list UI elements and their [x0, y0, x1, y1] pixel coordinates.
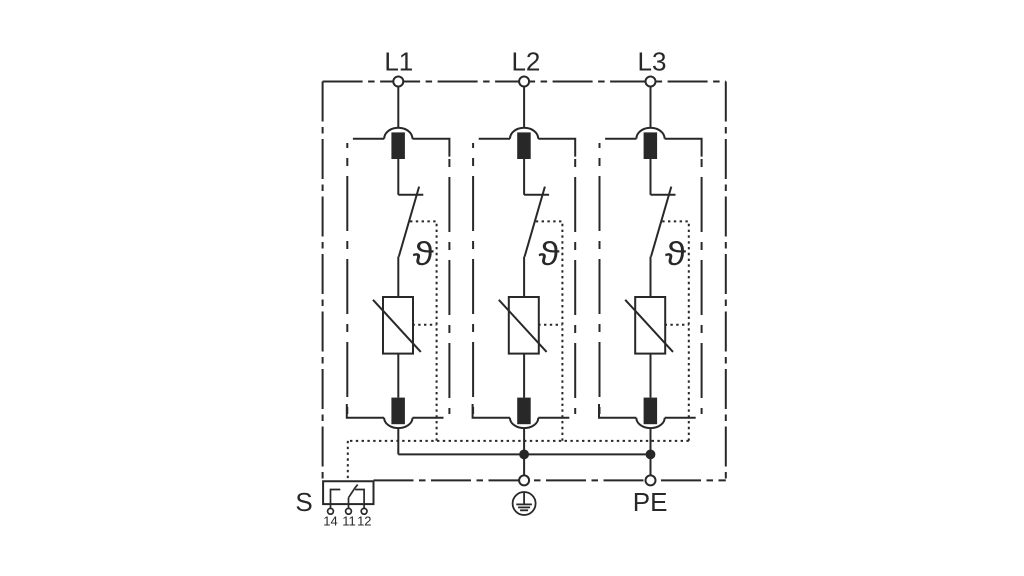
wire	[523, 257, 525, 297]
wire	[523, 159, 525, 195]
terminal L1	[393, 77, 403, 128]
wire	[523, 354, 525, 398]
thermal monitor dotted box 3	[662, 221, 689, 441]
terminal pin 12	[361, 504, 367, 514]
protective module 2 dash-dot box	[473, 139, 576, 418]
wire	[650, 159, 652, 195]
plug-in contact bottom 2 (arc)	[510, 418, 538, 428]
changeover contact: terminal 14 path	[331, 490, 341, 505]
svg-text:11: 11	[342, 514, 356, 529]
svg-text:12: 12	[357, 514, 371, 529]
thermal disconnect switch 2	[524, 187, 549, 257]
remote signalling contact box S	[323, 481, 373, 504]
thermal disconnect switch 1	[398, 187, 423, 257]
disconnect terminal top 1 (black block)	[391, 132, 405, 159]
varistor 3	[625, 297, 673, 354]
varistor 2	[499, 297, 547, 354]
junction node at L3 branch	[646, 450, 656, 460]
terminal pin 11	[346, 504, 352, 514]
terminal L2	[519, 77, 529, 128]
wire	[650, 354, 652, 398]
earth terminal circle	[519, 475, 529, 485]
thermal disconnect switch 3	[651, 187, 676, 257]
terminal L3	[646, 77, 656, 128]
wire	[650, 428, 652, 454]
protective module 1 dash-dot box	[347, 139, 450, 418]
thermal monitor dotted box 1	[410, 221, 437, 441]
plug-in contact bottom 3 (arc)	[636, 418, 664, 428]
changeover contact: terminal 12 path	[355, 490, 364, 505]
plug-in contact top 2 (arc)	[510, 128, 538, 139]
protective earth symbol	[513, 492, 536, 515]
disconnect terminal top 2 (black block)	[517, 132, 531, 159]
plug-in contact top 3 (arc)	[636, 128, 664, 139]
thermal monitor dotted box 2	[536, 221, 563, 441]
wire	[397, 159, 399, 195]
outer enclosure dash-dot border	[323, 82, 726, 481]
svg-text:S: S	[295, 487, 312, 517]
varistor 1	[373, 297, 421, 354]
disconnect terminal top 3 (black block)	[644, 132, 658, 159]
svg-text:ϑ: ϑ	[413, 234, 435, 272]
disconnect terminal bottom 1 (black block)	[391, 398, 405, 425]
terminal pin 14	[328, 504, 334, 514]
junction node at L2 branch	[519, 450, 529, 460]
wire	[397, 257, 399, 297]
svg-text:L3: L3	[638, 47, 667, 77]
disconnect terminal bottom 2 (black block)	[517, 398, 531, 425]
svg-text:14: 14	[323, 514, 337, 529]
plug-in contact bottom 1 (arc)	[384, 418, 412, 428]
wire	[650, 257, 652, 297]
svg-text:PE: PE	[633, 487, 668, 517]
PE bus wire	[398, 453, 650, 455]
protective module 3 dash-dot box	[599, 139, 702, 418]
disconnect terminal bottom 3 (black block)	[644, 398, 658, 425]
PE terminal circle	[646, 475, 656, 485]
svg-text:ϑ: ϑ	[665, 234, 687, 272]
wire	[650, 454, 652, 475]
wire	[397, 354, 399, 398]
wire	[523, 428, 525, 454]
wire	[523, 454, 525, 475]
svg-text:L2: L2	[511, 47, 540, 77]
wire	[397, 428, 399, 454]
remote signalling dotted line	[348, 441, 689, 479]
plug-in contact top 1 (arc)	[384, 128, 412, 139]
svg-text:ϑ: ϑ	[539, 234, 561, 272]
changeover contact: terminal 11 common with blade	[349, 485, 358, 505]
svg-text:L1: L1	[384, 47, 413, 77]
